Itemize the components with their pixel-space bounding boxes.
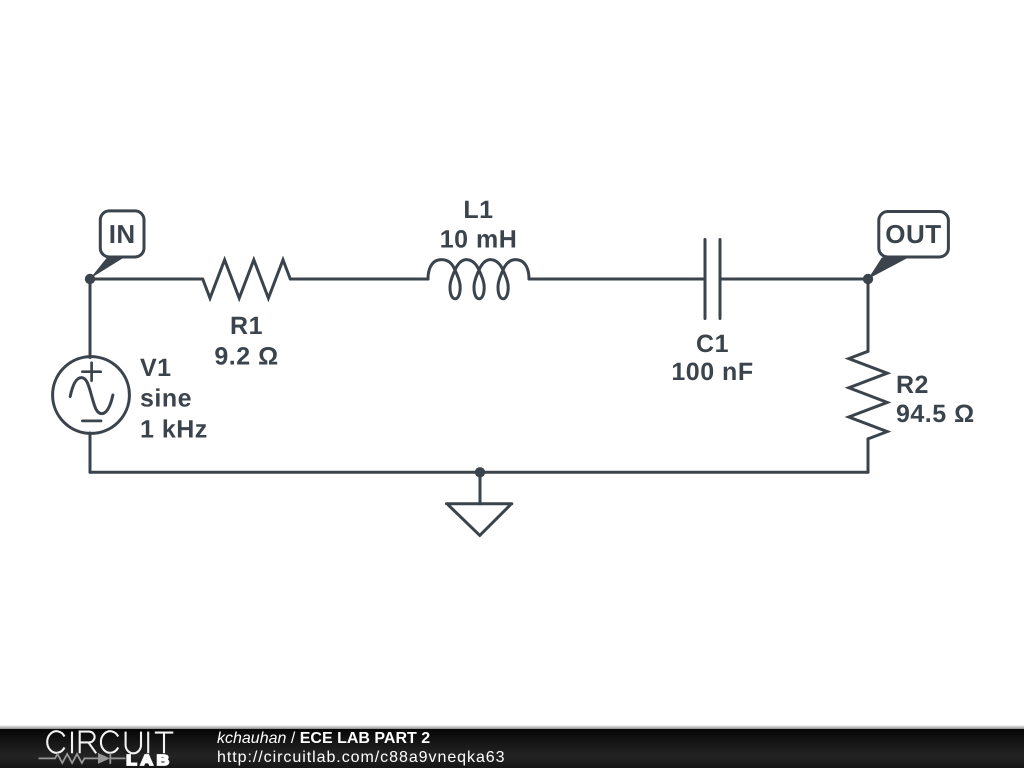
node OUT dot: [863, 274, 873, 284]
svg-text:9.2 Ω: 9.2 Ω: [214, 342, 278, 370]
svg-text:10 mH: 10 mH: [440, 225, 518, 253]
wire: C1 to OUT node: [720, 278, 868, 281]
svg-text:L1: L1: [463, 196, 493, 224]
ground symbol: [447, 504, 512, 536]
resistor R1: [203, 260, 291, 298]
V1 minus sign: [82, 420, 101, 423]
resistor R2: [849, 351, 887, 439]
svg-text:V1: V1: [140, 354, 172, 382]
logo word CIRCUIT: [47, 731, 173, 753]
voltage source V1 circle: [53, 357, 130, 434]
svg-text:C1: C1: [696, 330, 729, 358]
svg-text:R1: R1: [230, 312, 263, 340]
wire: R1 to L1: [290, 278, 428, 281]
OUT flag tail: [868, 258, 908, 280]
logo letter T: [155, 733, 174, 754]
CircuitLab logo: [0, 708, 200, 768]
logo letter I: [147, 732, 149, 754]
ground stub wire: [479, 472, 482, 504]
logo letter R: [80, 732, 97, 754]
footer bar: [0, 729, 1024, 768]
inductor L1: [428, 260, 529, 299]
V1 plus sign: [82, 363, 100, 381]
logo resistor-diode squiggle: [39, 753, 126, 764]
capacitor C1 left plate: [704, 240, 707, 319]
logo letter C: [101, 731, 118, 753]
node IN dot: [85, 274, 95, 284]
svg-text:R2: R2: [896, 371, 929, 399]
wire: bottom rail: [90, 471, 868, 474]
svg-text:100 nF: 100 nF: [671, 358, 753, 386]
footer shadow: [0, 725, 1024, 729]
svg-text:94.5 Ω: 94.5 Ω: [896, 400, 975, 428]
logo letter U: [126, 732, 141, 754]
ground node dot: [475, 467, 485, 477]
svg-text:IN: IN: [109, 219, 136, 249]
logo letter C: [47, 731, 64, 753]
logo letter I: [71, 732, 73, 754]
wire: top left segment from IN node to R1: [90, 278, 203, 281]
footer credit text: [217, 729, 506, 767]
flag box OUT: [879, 212, 949, 258]
wire: L1 to C1: [529, 278, 705, 281]
svg-text:sine: sine: [140, 385, 192, 413]
wire: R2 to bottom rail: [867, 439, 870, 472]
logo diode triangle: [98, 753, 110, 764]
V1 sine wave: [70, 378, 113, 414]
wire: IN node down to V1: [89, 279, 92, 358]
wire: V1 to bottom rail: [89, 433, 92, 472]
flag box IN: [100, 211, 144, 257]
svg-text:LAB: LAB: [126, 752, 172, 768]
wire: OUT node down to R2: [867, 279, 870, 351]
capacitor C1 right plate: [719, 240, 722, 319]
svg-text:OUT: OUT: [885, 219, 941, 249]
IN flag tail: [90, 258, 124, 279]
svg-text:1 kHz: 1 kHz: [140, 416, 208, 444]
